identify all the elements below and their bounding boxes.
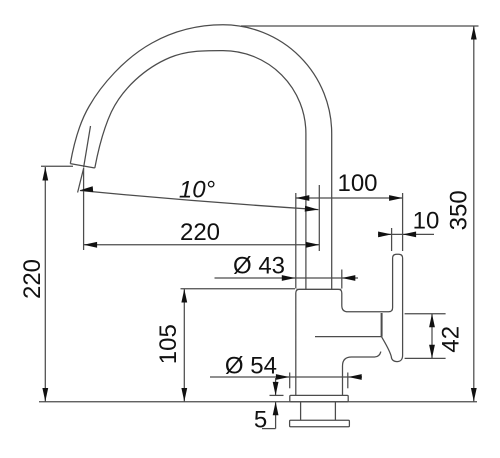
spout end cap <box>70 164 95 168</box>
42 bottom arrow <box>429 345 435 359</box>
220 horizontal right arrow <box>306 242 320 248</box>
svg-text:10: 10 <box>413 208 440 235</box>
svg-text:5: 5 <box>254 407 267 434</box>
5 dim lower line <box>275 402 277 429</box>
5 leader underline <box>262 428 276 430</box>
dia43 right arrow <box>342 275 356 281</box>
10 left arrow <box>378 232 392 238</box>
42 top extension line <box>405 313 446 315</box>
cartridge seam horizontal <box>315 336 382 338</box>
220 vertical top arrow <box>42 167 48 181</box>
220 horizontal dimension line <box>84 244 320 246</box>
countertop line <box>39 401 477 403</box>
42 bottom extension line <box>405 357 446 359</box>
105 top extension line <box>181 288 296 290</box>
100 right arrow <box>389 195 403 201</box>
svg-text:100: 100 <box>337 170 377 197</box>
spout tip extension vertical <box>83 169 85 251</box>
body left extension line <box>295 193 297 289</box>
220 vertical dimension line <box>44 167 46 402</box>
faucet body and handle outline <box>296 254 403 395</box>
5 dim upper line <box>275 378 277 395</box>
handle right extension line <box>402 193 404 251</box>
svg-text:Ø 54: Ø 54 <box>225 353 277 380</box>
dia43 dimension line <box>215 277 359 279</box>
base flange <box>290 395 348 401</box>
105 bottom arrow <box>181 388 187 402</box>
5 flange-top extension tick <box>270 394 284 396</box>
dia54 right arrow <box>348 374 362 380</box>
10 right arrow <box>403 232 417 238</box>
5 lower arrow <box>273 402 279 416</box>
350 bottom arrow <box>471 388 477 402</box>
svg-text:220: 220 <box>19 259 46 299</box>
faucet spout inner edge <box>95 51 306 290</box>
10deg right arrow <box>305 206 319 212</box>
spout center extension line <box>318 185 320 251</box>
svg-text:42: 42 <box>438 326 465 353</box>
cartridge seam vertical <box>381 313 383 337</box>
top extension line <box>241 25 479 27</box>
42 top arrow <box>429 314 435 328</box>
dia54 dimension line <box>210 376 362 378</box>
10deg arc <box>80 191 318 210</box>
svg-text:Ø 43: Ø 43 <box>233 253 285 280</box>
spout aerator seam <box>84 126 91 168</box>
105 top arrow <box>181 289 187 303</box>
dia54 right extension line <box>347 373 349 389</box>
350 top arrow <box>471 26 477 40</box>
faucet spout outer edge <box>70 25 331 290</box>
42 dimension line <box>431 314 433 359</box>
220 vertical bottom arrow <box>42 388 48 402</box>
spout tip extension line <box>41 165 73 167</box>
dia43 right extension line <box>341 270 343 289</box>
handle left extension line <box>391 228 393 251</box>
10 dimension line <box>378 233 434 235</box>
svg-text:220: 220 <box>180 219 220 246</box>
220 horizontal left arrow <box>84 242 98 248</box>
dia43 left arrow <box>282 275 296 281</box>
svg-text:350: 350 <box>445 190 472 230</box>
105 dimension line <box>183 289 185 402</box>
100 left arrow <box>296 195 310 201</box>
svg-text:10°: 10° <box>179 177 216 204</box>
100 dimension line <box>296 197 403 199</box>
dia54 left arrow <box>276 374 290 380</box>
10deg left arrow <box>80 186 94 192</box>
mounting shank <box>301 402 336 420</box>
locknut flange <box>290 420 350 427</box>
svg-text:105: 105 <box>155 324 182 364</box>
spout angle line <box>78 168 84 193</box>
dia54 left extension line <box>289 373 291 389</box>
5 upper arrow <box>273 382 279 396</box>
350 dimension line <box>473 26 475 402</box>
body top edge <box>297 288 342 290</box>
